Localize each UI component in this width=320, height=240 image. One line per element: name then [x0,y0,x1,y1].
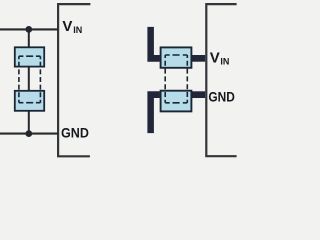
svg-text:GND: GND [208,89,235,105]
svg-text:V: V [62,18,72,35]
svg-text:IN: IN [73,25,82,35]
svg-text:GND: GND [61,124,89,140]
svg-text:IN: IN [220,57,229,67]
svg-text:V: V [210,49,220,66]
